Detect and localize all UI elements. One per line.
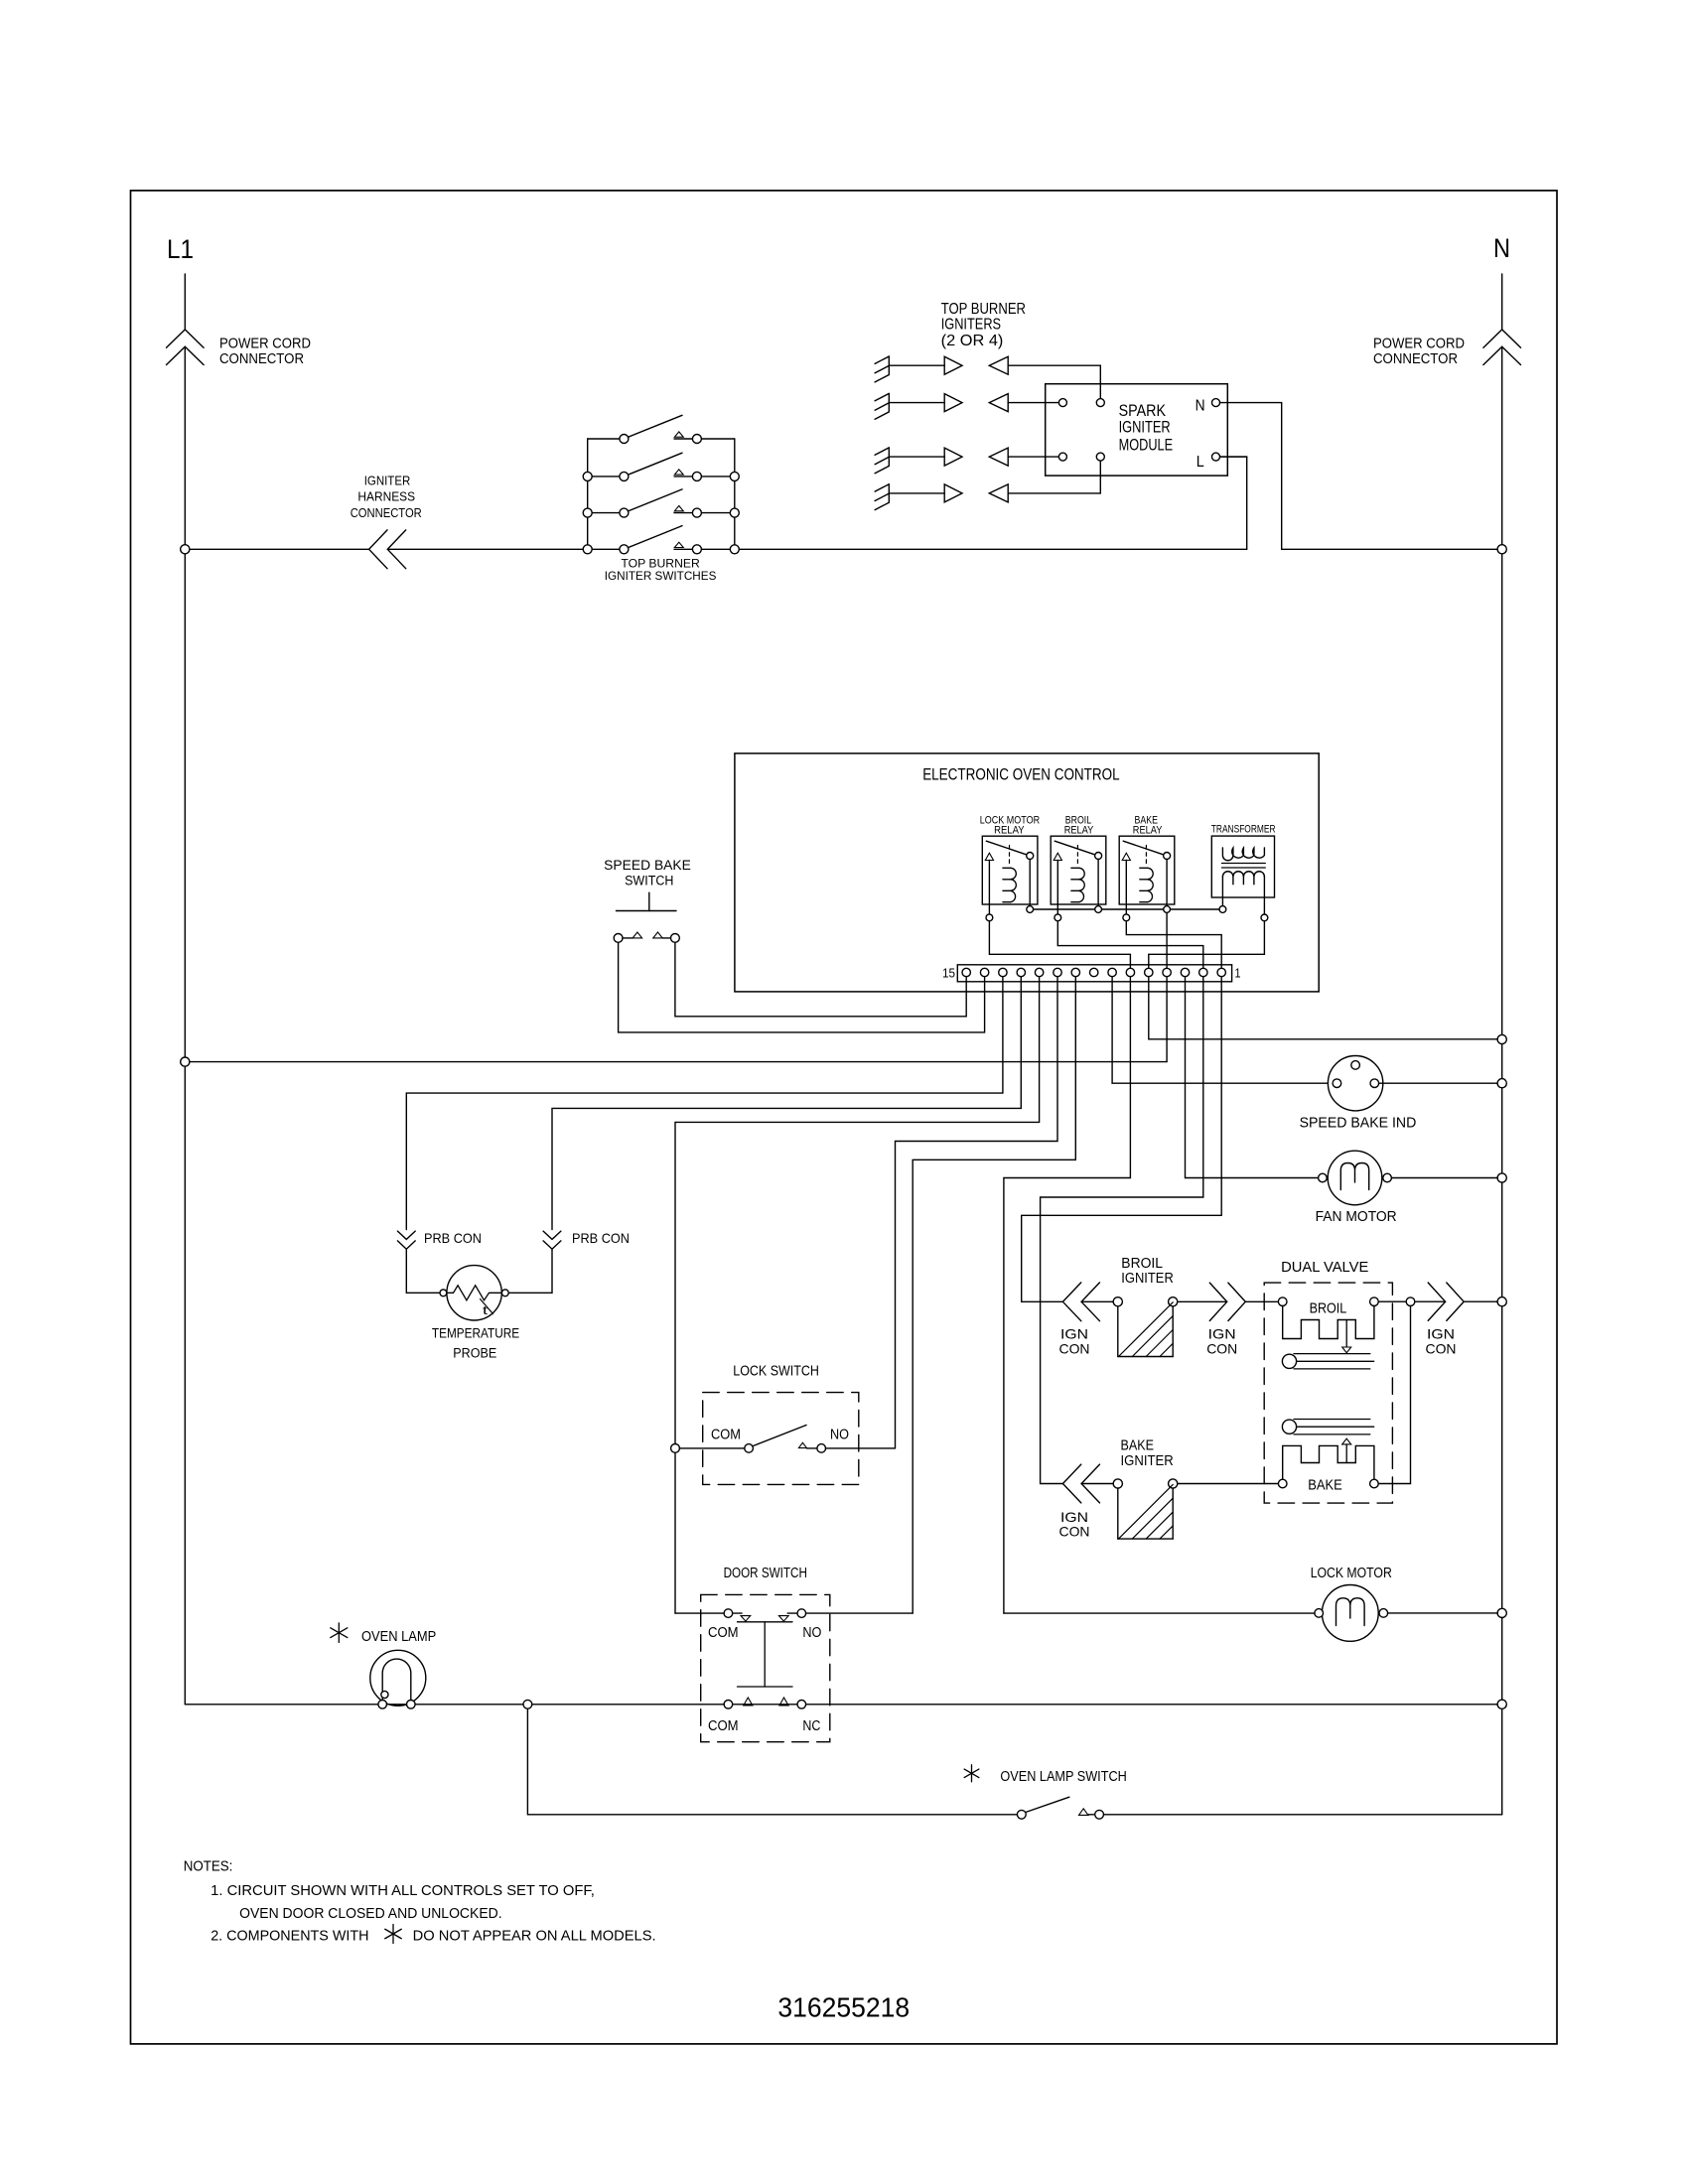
bake igniter left terminal bbox=[1113, 1479, 1122, 1488]
wire speed bake switch to terminal 15 bbox=[675, 942, 966, 1017]
spark igniter module box bbox=[1046, 384, 1228, 476]
wire terminal 1 to broil igniter bbox=[1022, 977, 1222, 1302]
wire L1 lead-in bbox=[184, 274, 186, 330]
transformer T1 right lead bbox=[1263, 877, 1265, 914]
wire bake armature to terminal 4 bbox=[1166, 912, 1168, 968]
broil relay K2 coil lead wire bbox=[1056, 861, 1058, 914]
bake relay K3 armature lead wire bbox=[1166, 860, 1168, 906]
wire lamp bus segment 1 bbox=[185, 1704, 378, 1706]
door switch NC triangle 1 bbox=[744, 1698, 753, 1706]
wire terminal 4 to line branch bbox=[190, 977, 1167, 1062]
svg-text:ELECTRONIC OVEN CONTROL: ELECTRONIC OVEN CONTROL bbox=[922, 765, 1119, 784]
wire N vertical to lamp switch bbox=[1501, 1708, 1503, 1814]
broil relay K2 plunger triangle bbox=[1054, 853, 1061, 860]
asterisk note 2 bbox=[392, 1925, 394, 1944]
wire igniter row1 to module bbox=[1008, 365, 1100, 398]
lock motor relay K1 box bbox=[982, 836, 1038, 904]
wire N vertical bbox=[1501, 346, 1503, 545]
wire door switch COM feed bbox=[675, 1612, 724, 1614]
lock motor relay K1 armature contact bbox=[1027, 853, 1034, 860]
fan motor body bbox=[1328, 1151, 1382, 1205]
svg-text:NO: NO bbox=[830, 1427, 849, 1442]
node junction L1 x t4-branch bbox=[181, 1057, 190, 1066]
border frame bbox=[131, 191, 1558, 2044]
speed bake switch contact triangles bbox=[633, 932, 641, 938]
lock motor relay K1 armature pin bbox=[1027, 906, 1034, 913]
svg-text:BAKE: BAKE bbox=[1308, 1477, 1342, 1493]
node junction N x speed-bake-ind bbox=[1497, 1079, 1506, 1088]
svg-text:COM: COM bbox=[708, 1625, 739, 1641]
door switch lower COM contact bbox=[724, 1701, 733, 1709]
speed bake indicator right pin bbox=[1370, 1079, 1379, 1088]
wire module N to neutral bbox=[1220, 403, 1498, 550]
oven lamp switch blade bbox=[1026, 1797, 1069, 1812]
svg-text:CONNECTOR: CONNECTOR bbox=[351, 505, 422, 520]
door switch actuator bbox=[738, 1621, 793, 1623]
probe connector PRB CON right bbox=[543, 1231, 561, 1239]
transformer T1 right pin bbox=[1261, 914, 1268, 921]
electronic oven control box bbox=[735, 753, 1319, 992]
igniter harness connector bbox=[369, 530, 387, 569]
wire terminal 9 to door switch NO bbox=[913, 977, 1075, 1613]
lock switch blade bbox=[754, 1426, 806, 1446]
wire ign con to neutral bbox=[1464, 1300, 1497, 1302]
lock motor relay K1 coil bbox=[1003, 868, 1011, 901]
wire lamp bus segment 4 bbox=[532, 1704, 724, 1706]
top burner igniter 4 electrode bbox=[888, 484, 890, 503]
svg-text:BROIL: BROIL bbox=[1310, 1300, 1347, 1316]
asterisk oven lamp bbox=[338, 1623, 340, 1643]
terminal 6 bbox=[1126, 968, 1134, 976]
bake relay K3 box bbox=[1119, 836, 1175, 904]
top burner igniter switch row 2 pole contact bbox=[620, 472, 629, 480]
oven lamp left pin bbox=[378, 1701, 387, 1709]
svg-text:2. COMPONENTS WITH: 2. COMPONENTS WITH bbox=[211, 1929, 368, 1945]
svg-text:OVEN LAMP: OVEN LAMP bbox=[361, 1629, 436, 1645]
svg-text:IGN: IGN bbox=[1208, 1326, 1236, 1342]
node junction N x t5-wire bbox=[1497, 1034, 1506, 1043]
transformer T1 secondary winding bbox=[1222, 872, 1264, 877]
temperature probe t-coefficient mark bbox=[481, 1299, 493, 1314]
temperature probe right pin bbox=[501, 1290, 508, 1297]
top burner igniter switch row 4 pole contact bbox=[620, 545, 629, 554]
node junction N x ign-con bbox=[1497, 1297, 1506, 1306]
bake relay K3 plunger triangle bbox=[1122, 853, 1130, 860]
spark igniter module pin L bbox=[1212, 453, 1220, 461]
top burner igniter switch row 3 wiring bbox=[592, 512, 620, 514]
wire broil relay coil to terminal 2 bbox=[1057, 921, 1203, 969]
lock motor relay K1 armature lead wire bbox=[1029, 860, 1031, 906]
svg-text:IGN: IGN bbox=[1427, 1326, 1455, 1342]
top burner igniter 3 wire to connector bbox=[889, 456, 944, 458]
wire bake relay coil to terminal 1 bbox=[1126, 921, 1221, 969]
wire lock switch common feed bbox=[679, 1447, 744, 1449]
wire igniter row3 to module bbox=[1008, 456, 1058, 458]
bake relay K3 armature contact bbox=[1164, 853, 1171, 860]
lock motor left pin bbox=[1315, 1609, 1324, 1618]
wire N vertical 6 bbox=[1501, 1306, 1503, 1609]
wire junction to ign con bbox=[1415, 1300, 1446, 1302]
top burner igniter switch row 1 blade bbox=[629, 415, 683, 437]
wire L1 bus segment 2 bbox=[387, 548, 583, 550]
dual valve bake solenoid bbox=[1283, 1445, 1374, 1479]
oven lamp body bbox=[370, 1650, 426, 1706]
node junction N x fan-motor bbox=[1497, 1173, 1506, 1182]
oven lamp switch pole contact bbox=[1017, 1810, 1026, 1819]
lock motor right pin bbox=[1379, 1609, 1388, 1618]
wire N vertical 3 bbox=[1501, 1044, 1503, 1079]
svg-text:HARNESS: HARNESS bbox=[357, 489, 415, 504]
lock motor relay K1 coil lead wire bbox=[988, 861, 990, 914]
svg-text:POWER CORD: POWER CORD bbox=[1373, 336, 1465, 352]
svg-text:CON: CON bbox=[1059, 1341, 1090, 1357]
bake relay K3 coil lead wire bbox=[1125, 861, 1127, 914]
wire terminal 11 to lock switch common bbox=[675, 977, 1040, 1444]
svg-text:IGN: IGN bbox=[1060, 1326, 1088, 1342]
svg-text:COM: COM bbox=[708, 1718, 739, 1734]
node junction N x lamp bus bbox=[1497, 1700, 1506, 1708]
node junction N x lock-motor bbox=[1497, 1608, 1506, 1617]
wire igniter row4 to module bbox=[1008, 461, 1100, 493]
svg-text:CONNECTOR: CONNECTOR bbox=[1373, 350, 1458, 367]
svg-text:CON: CON bbox=[1426, 1341, 1457, 1357]
igniter connector IGN CON right bbox=[1428, 1283, 1445, 1320]
svg-text:IGNITER: IGNITER bbox=[364, 473, 411, 487]
top burner igniter switch row 3 throw triangle bbox=[674, 506, 683, 511]
wire lock relay coil to terminal 6 bbox=[989, 921, 1130, 969]
broil relay K2 coil bbox=[1071, 868, 1079, 901]
door switch enclosure dashed bbox=[701, 1594, 830, 1741]
wire relay common bus bbox=[1034, 908, 1095, 910]
svg-text:(2 OR 4): (2 OR 4) bbox=[941, 333, 1004, 349]
dual valve broil gas outlet bbox=[1282, 1354, 1296, 1368]
top burner igniter switches right bus bbox=[734, 439, 736, 549]
lock motor body bbox=[1322, 1585, 1378, 1642]
lock motor relay K1 plunger triangle bbox=[985, 853, 993, 860]
top burner igniter switch row 4 throw triangle bbox=[674, 542, 683, 547]
speed bake indicator left pin bbox=[1333, 1079, 1341, 1088]
broil igniter right terminal bbox=[1169, 1297, 1178, 1306]
svg-text:DUAL VALVE: DUAL VALVE bbox=[1281, 1260, 1369, 1276]
wire ign con to broil igniter bbox=[1081, 1300, 1113, 1302]
svg-text:DOOR SWITCH: DOOR SWITCH bbox=[724, 1566, 807, 1581]
node junction lamp bus x lamp switch bbox=[523, 1700, 532, 1708]
bake igniter right terminal bbox=[1169, 1479, 1178, 1488]
svg-text:NOTES:: NOTES: bbox=[184, 1858, 233, 1874]
svg-text:N: N bbox=[1493, 233, 1510, 263]
power cord connector (L1) bbox=[167, 330, 205, 347]
top burner igniter 3 connector arrow right bbox=[944, 448, 962, 466]
dual valve bake gas outlet bbox=[1282, 1420, 1296, 1433]
svg-text:POWER CORD: POWER CORD bbox=[219, 336, 311, 352]
wire terminal 12 to probe connector bbox=[552, 977, 1021, 1230]
wire lamp bus segment 2 bbox=[387, 1704, 407, 1706]
wire broil igniter to ign con 2 bbox=[1178, 1300, 1227, 1302]
wire fan motor to neutral bbox=[1391, 1177, 1497, 1179]
svg-text:COM: COM bbox=[711, 1427, 741, 1442]
wire terminal 10 to lock switch NO bbox=[896, 977, 1058, 1448]
top burner igniter 2 connector arrow left bbox=[989, 394, 1008, 412]
terminal 7 bbox=[1108, 968, 1116, 976]
door switch NC triangle 2 bbox=[779, 1698, 788, 1706]
oven lamp aux pin bbox=[381, 1691, 388, 1698]
oven lamp filament bbox=[382, 1659, 411, 1701]
probe connector PRB CON left bbox=[397, 1231, 415, 1239]
top burner igniter switch row 3 throw contact bbox=[692, 508, 701, 517]
svg-text:IGNITER: IGNITER bbox=[1121, 1453, 1174, 1469]
bake relay K3 coil bbox=[1140, 868, 1148, 901]
wire valve broil outlet to junction bbox=[1378, 1300, 1406, 1302]
oven lamp right pin bbox=[407, 1701, 416, 1709]
wire lock switch NO stub bbox=[806, 1447, 817, 1449]
bake relay K3 armature pin bbox=[1164, 906, 1171, 913]
lock switch enclosure dashed bbox=[703, 1393, 859, 1485]
svg-text:CON: CON bbox=[1059, 1524, 1090, 1540]
oven lamp switch throw contact bbox=[1095, 1810, 1104, 1819]
svg-text:SPEED BAKE IND: SPEED BAKE IND bbox=[1300, 1115, 1417, 1131]
top burner igniter switch row 4 blade bbox=[629, 526, 683, 548]
speed bake indicator body bbox=[1328, 1056, 1382, 1111]
dual valve bake outlet pin bbox=[1370, 1479, 1379, 1488]
terminal 11 bbox=[1035, 968, 1043, 976]
wire lamp switch branch bbox=[527, 1708, 1017, 1815]
svg-text:MODULE: MODULE bbox=[1119, 436, 1174, 455]
svg-text:RELAY: RELAY bbox=[1064, 825, 1094, 837]
top burner igniter 1 electrode bbox=[888, 356, 890, 375]
wire lamp bus through door switch bbox=[733, 1704, 797, 1706]
door switch NO contact bbox=[797, 1609, 806, 1618]
bake relay K3 armature blade bbox=[1123, 841, 1164, 855]
svg-text:IGNITER: IGNITER bbox=[1119, 418, 1171, 437]
speed bake switch throw contact bbox=[671, 934, 680, 943]
broil relay K2 armature lead wire bbox=[1097, 860, 1099, 906]
svg-text:15: 15 bbox=[942, 966, 955, 980]
wire speed bake indicator to neutral bbox=[1379, 1082, 1498, 1084]
wire lock node down to door switch bbox=[674, 1452, 676, 1613]
wire terminal 13 to probe connector bbox=[406, 977, 1003, 1230]
svg-text:SWITCH: SWITCH bbox=[625, 874, 673, 888]
dual valve broil solenoid bbox=[1283, 1306, 1374, 1339]
svg-text:NC: NC bbox=[802, 1718, 820, 1734]
wire lamp bus segment 3 bbox=[415, 1704, 523, 1706]
wire N vertical 2 bbox=[1501, 554, 1503, 1035]
lock motor relay K1 armature blade bbox=[986, 841, 1027, 855]
svg-text:IGNITER SWITCHES: IGNITER SWITCHES bbox=[605, 569, 717, 583]
wire ign con to dual valve broil bbox=[1245, 1300, 1278, 1302]
terminal 9 bbox=[1071, 968, 1079, 976]
wire igniter row2 to module bbox=[1008, 402, 1058, 404]
power cord connector (N) bbox=[1483, 330, 1521, 347]
spark igniter module pin 2 bbox=[1096, 399, 1104, 407]
svg-text:316255218: 316255218 bbox=[777, 1991, 910, 2022]
top burner igniter switch row 1 throw contact bbox=[692, 435, 701, 444]
spark igniter module pin N bbox=[1212, 399, 1220, 407]
wire N lead-in bbox=[1501, 274, 1503, 330]
broil relay K2 armature pin bbox=[1095, 906, 1102, 913]
top burner igniter 2 electrode bbox=[888, 393, 890, 412]
svg-text:RELAY: RELAY bbox=[1133, 825, 1163, 837]
fan motor winding bbox=[1340, 1163, 1368, 1190]
broil relay K2 coil pin bbox=[1055, 914, 1061, 921]
wire L1 vertical bbox=[184, 346, 186, 549]
transformer T1 left pin bbox=[1219, 906, 1226, 913]
svg-text:NO: NO bbox=[802, 1625, 821, 1641]
bake igniter element bbox=[1117, 1488, 1119, 1539]
wire L1 vertical to lamp bus bbox=[184, 1066, 186, 1705]
speed bake switch pole contact bbox=[614, 934, 623, 943]
door switch COM contact bbox=[724, 1609, 733, 1618]
wire terminal 2 to bake igniter bbox=[1041, 977, 1203, 1484]
terminal 4 bbox=[1163, 968, 1171, 976]
svg-text:IGNITER: IGNITER bbox=[1121, 1271, 1174, 1287]
wire L1 bus segment 1 bbox=[190, 548, 369, 550]
terminal 2 bbox=[1199, 968, 1207, 976]
dual valve bake inlet pin bbox=[1278, 1479, 1287, 1488]
terminal 14 bbox=[980, 968, 988, 976]
svg-text:CON: CON bbox=[1206, 1341, 1237, 1357]
top burner igniter 1 connector arrow left bbox=[989, 356, 1008, 374]
wire N vertical 5 bbox=[1501, 1182, 1503, 1297]
top burner igniter 2 connector arrow right bbox=[944, 394, 962, 412]
wire lock motor to neutral bbox=[1388, 1612, 1498, 1614]
terminal 1 bbox=[1217, 968, 1225, 976]
wire door NO row stubs bbox=[733, 1612, 742, 1614]
svg-text:BAKE: BAKE bbox=[1121, 1438, 1155, 1454]
top burner igniter switch row 1 pole contact bbox=[620, 435, 629, 444]
svg-text:1: 1 bbox=[1235, 966, 1241, 980]
dual valve bake actuation arrow bbox=[1342, 1438, 1351, 1444]
asterisk oven lamp switch bbox=[971, 1765, 973, 1782]
svg-text:LOCK SWITCH: LOCK SWITCH bbox=[733, 1363, 819, 1379]
wire junction down to bake outlet bbox=[1378, 1306, 1410, 1484]
igniter connector IGN CON broil left bbox=[1062, 1283, 1080, 1321]
broil relay K2 armature contact bbox=[1095, 853, 1102, 860]
svg-text:PROBE: PROBE bbox=[453, 1346, 496, 1361]
door switch NO triangle 2 bbox=[779, 1616, 789, 1622]
fan motor left pin bbox=[1319, 1173, 1328, 1182]
wire prb left to probe bbox=[406, 1249, 440, 1293]
broil relay K2 coil link dashed bbox=[1076, 846, 1078, 867]
node junction valve outputs bbox=[1406, 1297, 1415, 1306]
bake relay K3 coil link dashed bbox=[1145, 846, 1147, 867]
wire ign con to bake igniter bbox=[1081, 1483, 1113, 1485]
wire L1 bus segment 3 bbox=[739, 548, 1246, 550]
terminal 10 bbox=[1054, 968, 1061, 976]
temperature probe resistor element bbox=[447, 1286, 502, 1300]
terminal 13 bbox=[999, 968, 1007, 976]
wire N vertical 4 bbox=[1501, 1088, 1503, 1173]
transformer T1 core bbox=[1222, 863, 1266, 865]
dual valve broil outlet pin bbox=[1370, 1297, 1379, 1306]
top burner igniter 2 wire to connector bbox=[889, 402, 944, 404]
top burner igniter 4 connector arrow right bbox=[944, 484, 962, 502]
svg-text:OVEN LAMP SWITCH: OVEN LAMP SWITCH bbox=[1000, 1769, 1126, 1785]
top burner igniter switch row 1 throw triangle bbox=[674, 432, 683, 437]
wire terminal 6 to lock motor line bbox=[1004, 977, 1131, 1613]
wire N vertical 7 bbox=[1501, 1618, 1503, 1701]
broil igniter element bbox=[1117, 1306, 1119, 1357]
broil relay K2 armature blade bbox=[1055, 841, 1095, 855]
spark igniter module pin 4 bbox=[1096, 453, 1104, 461]
lock switch NO contact bbox=[817, 1444, 826, 1453]
top burner igniter 3 electrode bbox=[888, 448, 890, 467]
oven lamp switch throw triangle bbox=[1079, 1809, 1088, 1816]
speed bake switch wire stubs bbox=[623, 937, 633, 939]
top burner igniter 1 connector arrow right bbox=[944, 356, 962, 374]
wire door switch NO out bbox=[806, 1612, 914, 1614]
svg-text:OVEN DOOR CLOSED AND UNLOC: OVEN DOOR CLOSED AND UNLOCKED. bbox=[239, 1906, 502, 1922]
top burner igniter switch row 2 wiring bbox=[592, 476, 620, 478]
wire prb right to probe bbox=[508, 1249, 552, 1293]
igniter connector IGN CON bake left bbox=[1062, 1464, 1080, 1503]
lock motor winding bbox=[1336, 1598, 1365, 1626]
speed bake switch actuator bbox=[648, 892, 650, 910]
svg-text:DO NOT APPEAR ON ALL MODE: DO NOT APPEAR ON ALL MODELS. bbox=[413, 1929, 656, 1945]
svg-text:L: L bbox=[1196, 454, 1204, 471]
top burner igniter switch row 4 wiring bbox=[592, 548, 620, 550]
spark igniter module pin 3 bbox=[1058, 453, 1066, 461]
top burner igniter 4 wire to connector bbox=[889, 492, 944, 494]
lock switch throw triangle bbox=[798, 1442, 806, 1447]
broil igniter left terminal bbox=[1113, 1297, 1122, 1306]
svg-text:BROIL: BROIL bbox=[1121, 1256, 1163, 1272]
wire speed bake switch to terminal 14 bbox=[619, 942, 985, 1032]
wire lamp switch to neutral bbox=[1104, 1814, 1502, 1816]
wire module L stub bbox=[1220, 456, 1247, 458]
top burner igniter switches left bus bbox=[587, 439, 589, 549]
top burner igniter 3 connector arrow left bbox=[989, 448, 1008, 466]
svg-text:FAN MOTOR: FAN MOTOR bbox=[1316, 1209, 1397, 1225]
lock motor relay K1 coil pin bbox=[986, 914, 993, 921]
terminal strip box bbox=[957, 965, 1231, 982]
terminal 3 bbox=[1181, 968, 1189, 976]
door switch NO triangle 1 bbox=[741, 1616, 751, 1622]
wire L1 vertical lower bbox=[184, 554, 186, 1057]
top burner igniter switch row 3 left bus terminal bbox=[583, 508, 592, 517]
top burner igniter switch row 3 right bus terminal bbox=[730, 508, 739, 517]
top burner igniter switch row 2 left bus terminal bbox=[583, 472, 592, 480]
speed bake indicator top pin bbox=[1351, 1061, 1360, 1070]
node junction lock switch common bbox=[671, 1444, 680, 1453]
svg-text:PRB CON: PRB CON bbox=[424, 1230, 482, 1246]
wire lock motor feed bbox=[1004, 1612, 1315, 1614]
wire lamp switch stub bbox=[1088, 1814, 1095, 1816]
wire bake igniter to dual valve bbox=[1178, 1483, 1278, 1485]
top burner igniter switch row 2 throw contact bbox=[692, 472, 701, 480]
wire terminal 5 to neutral bbox=[1149, 977, 1497, 1039]
wire L-pin riser bbox=[1220, 457, 1247, 549]
top burner igniter 4 connector arrow left bbox=[989, 484, 1008, 502]
bake relay K3 coil pin bbox=[1123, 914, 1130, 921]
wire terminal 7 to speed bake indicator bbox=[1112, 977, 1333, 1083]
dual valve enclosure dashed bbox=[1264, 1283, 1392, 1503]
svg-text:L1: L1 bbox=[167, 234, 194, 264]
igniter connector IGN CON broil right bbox=[1209, 1283, 1226, 1320]
dual valve broil inlet pin bbox=[1278, 1297, 1287, 1306]
svg-text:TEMPERATURE: TEMPERATURE bbox=[432, 1326, 519, 1341]
top burner igniter 1 wire to connector bbox=[889, 364, 944, 366]
svg-text:1. CIRCUIT SHOWN WITH ALL: 1. CIRCUIT SHOWN WITH ALL CONTROLS SET T… bbox=[211, 1883, 595, 1899]
top burner igniter switch row 2 blade bbox=[629, 453, 683, 475]
wire lock switch NO out bbox=[826, 1447, 896, 1449]
top burner igniter switch row 2 right bus terminal bbox=[730, 472, 739, 480]
wire terminal 3 to fan motor bbox=[1186, 977, 1319, 1178]
transformer T1 box bbox=[1211, 836, 1274, 897]
transformer T1 left lead bbox=[1221, 877, 1223, 906]
node junction N x spark-module bbox=[1497, 545, 1506, 554]
svg-text:TRANSFORMER: TRANSFORMER bbox=[1211, 824, 1276, 836]
top burner igniter switch row 3 blade bbox=[629, 489, 683, 511]
